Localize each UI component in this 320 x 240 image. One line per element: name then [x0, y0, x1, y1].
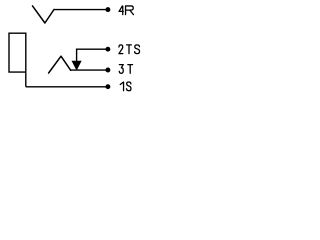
pin dot 1S: [105, 84, 110, 89]
wire tip to pin 3T: [70, 69, 108, 71]
pin dot 2TS: [105, 47, 110, 52]
wire switch to pin 2TS: [77, 49, 108, 61]
jack body rectangle: [9, 33, 26, 87]
wire sleeve to pin 1S: [26, 86, 108, 88]
ring contact spring: [33, 6, 55, 23]
pin dot 4R: [105, 7, 110, 12]
pin label 1S: [120, 82, 131, 91]
switch contact triangle: [72, 61, 81, 70]
pin dot 3T: [105, 68, 110, 73]
pin label 2TS: [119, 45, 140, 54]
tip contact spring: [49, 56, 71, 73]
pin label 3T: [119, 65, 132, 74]
jack J1 schematic: [0, 0, 150, 100]
pin label 4R: [119, 6, 133, 15]
wire ring to pin 4R: [54, 9, 109, 11]
